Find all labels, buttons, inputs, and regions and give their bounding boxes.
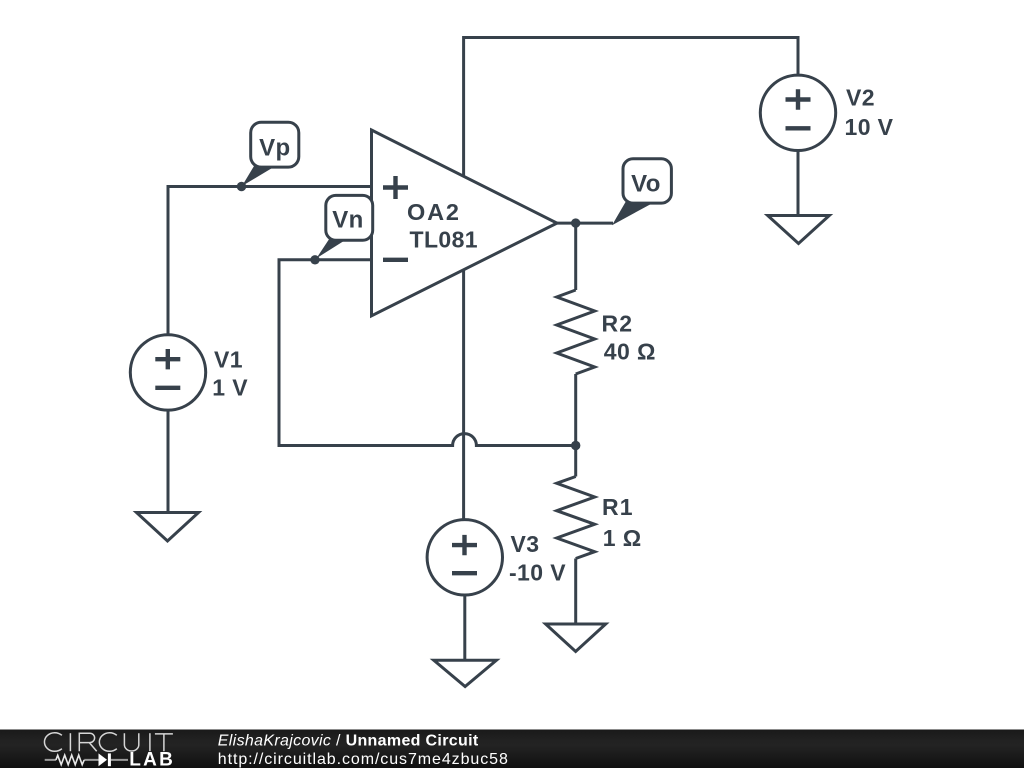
- logo diode: [99, 753, 108, 766]
- svg-text:ElishaKrajcovic / Unnamed Circ: ElishaKrajcovic / Unnamed Circuit: [218, 732, 479, 749]
- logo resistor zigzag: [56, 755, 84, 765]
- svg-text:TL081: TL081: [410, 226, 478, 252]
- svg-text:V3: V3: [511, 531, 540, 557]
- ground (below V2): [768, 216, 830, 244]
- wire Vn net: op-amp - input, down and right with hop: [279, 260, 576, 446]
- ground (below V3): [434, 660, 497, 686]
- wire V1 to ground: [167, 410, 170, 512]
- V1 plus symbol: [155, 349, 180, 369]
- svg-text:1 Ω: 1 Ω: [603, 525, 642, 551]
- svg-text:10 V: 10 V: [845, 114, 894, 140]
- wire R1 bottom to ground: [574, 559, 577, 625]
- svg-text:Vn: Vn: [332, 207, 363, 234]
- wire V3 to ground: [463, 595, 466, 660]
- wire output junction down to R2: [574, 223, 577, 290]
- node dot Vp: [237, 182, 246, 191]
- svg-text:Vo: Vo: [631, 171, 661, 198]
- svg-text:V1: V1: [214, 347, 243, 373]
- V2 plus symbol: [786, 89, 811, 109]
- V3 minus symbol: [452, 571, 477, 575]
- ground (below V1): [137, 513, 199, 542]
- op-amp - input symbol: [383, 258, 408, 262]
- op-amp + input symbol: [383, 176, 408, 199]
- svg-text:OA2: OA2: [407, 199, 461, 225]
- svg-text:R2: R2: [602, 310, 634, 336]
- op-amp OA2 triangle: [372, 130, 558, 316]
- wire V2 to ground: [797, 151, 800, 216]
- svg-text:http://circuitlab.com/cus7me4z: http://circuitlab.com/cus7me4zbuc58: [218, 751, 509, 768]
- flag tail Vo: [612, 200, 651, 226]
- svg-text:1 V: 1 V: [212, 375, 248, 401]
- V2 minus symbol: [786, 126, 811, 130]
- node label box Vn: [326, 195, 373, 240]
- node dot Vn: [310, 255, 319, 264]
- V3 plus symbol: [452, 535, 477, 555]
- voltage source V1 circle: [130, 335, 205, 410]
- svg-text:-10 V: -10 V: [509, 560, 566, 586]
- wire R2 bottom to junction: [574, 374, 577, 477]
- flag tail Vn: [317, 237, 346, 258]
- svg-text:40 Ω: 40 Ω: [604, 338, 656, 364]
- junction dot at op-amp output: [571, 218, 580, 227]
- resistor R2: [557, 290, 595, 374]
- svg-text:Vp: Vp: [259, 135, 290, 162]
- svg-text:V2: V2: [846, 84, 875, 110]
- svg-text:R1: R1: [602, 494, 634, 520]
- footer bar: [0, 730, 1024, 768]
- wire output: op-amp vertex to Vo stub: [557, 222, 613, 225]
- ground (below R1): [546, 624, 606, 652]
- wire Vp net: V1 top to op-amp + input: [168, 187, 372, 335]
- logo resistor lead line: [45, 759, 128, 761]
- logo CIRCUIT letters: [44, 733, 172, 752]
- wire positive supply: op-amp top pin to V2: [464, 38, 798, 177]
- flag tail Vp: [242, 164, 274, 187]
- node label box Vp: [251, 122, 299, 167]
- junction dot R1/R2/wire: [571, 441, 580, 450]
- svg-text:LAB: LAB: [129, 749, 175, 768]
- resistor R1: [557, 477, 595, 559]
- voltage source V2 circle: [760, 75, 835, 150]
- V1 minus symbol: [155, 386, 180, 390]
- wire negative supply: op-amp bottom pin to V3: [462, 270, 465, 520]
- node label box Vo: [623, 159, 671, 203]
- voltage source V3 circle: [427, 520, 502, 595]
